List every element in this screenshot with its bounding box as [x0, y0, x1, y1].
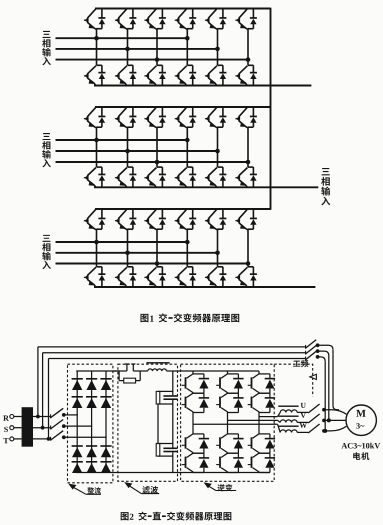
wire: group 2 top DC bus: [95, 106, 271, 108]
node: group 3 col 2 junction on phase line 2: [125, 251, 130, 256]
node: group 1 col 6 junction on phase line 3: [246, 57, 251, 62]
wire: group 2 col 4 vertical interconnect: [186, 127, 188, 167]
label: 三相输入 (right side): [321, 168, 330, 205]
thyristor pair cell, group 2 top row col 4: [175, 107, 197, 128]
wire: group 2 col 5 vertical interconnect: [217, 127, 219, 167]
wire: group 3 top DC bus: [95, 208, 271, 210]
thyristor pair cell, group 3 top row col 2: [115, 209, 136, 230]
node: group 2 col 5 junction on phase line 2: [215, 149, 220, 154]
IGBT Q23 with freewheel diode: [216, 434, 243, 453]
capacitor C1: [163, 395, 177, 397]
wire: resistor chain link: [157, 404, 159, 444]
thyristor pair cell, group 3 bottom row col 3: [144, 267, 166, 287]
dashed box: filter section: [118, 364, 178, 481]
thyristor pair cell, group 2 bottom row col 2: [115, 167, 136, 187]
wire: switch to rectifier taps: [64, 414, 78, 416]
IGBT Q14 with freewheel diode: [182, 453, 209, 472]
diode D14: [72, 461, 83, 463]
diode D22: [86, 396, 97, 398]
capacitor C2: [163, 448, 177, 450]
thyristor pair cell, group 2 bottom row col 1: [84, 167, 106, 187]
diode D12: [72, 396, 83, 398]
contactor bypass branch: [119, 370, 127, 372]
wire: output fan to U V W: [278, 412, 281, 416]
thyristor pair cell, group 1 top row col 5: [205, 9, 227, 30]
label: AC3~10kV 电机: [341, 443, 347, 448]
label: V: [301, 413, 306, 418]
node: group 3 col 1 junction on phase line 1: [94, 240, 99, 245]
wire: group 3 col 1 vertical interconnect: [96, 229, 98, 267]
thyristor pair cell, group 1 bottom row col 5: [205, 65, 227, 85]
IGBT Q32 with freewheel diode: [248, 393, 275, 412]
wire: filter entry: [113, 370, 119, 372]
wire: inverter leg 2 output tap: [228, 419, 278, 421]
wire: group 1 phase input line 3: [56, 59, 249, 61]
label: 逆变 (inverter): [204, 482, 212, 488]
thyristor pair cell, group 2 bottom row col 4: [175, 167, 197, 187]
IGBT Q34 with freewheel diode: [248, 453, 275, 472]
thyristor pair cell, group 1 bottom row col 1: [84, 65, 106, 85]
switch: W output knife switch: [297, 431, 308, 433]
node: group 1 col 3 junction on phase line 3: [155, 57, 160, 62]
inductor L (DC link choke) with core bar: [140, 370, 148, 372]
thyristor pair cell, group 3 bottom row col 5: [205, 267, 227, 287]
wire: inverter leg 1 mid segment: [192, 413, 194, 434]
wire: U V W to motor: [324, 410, 347, 415]
node: group 3 col 3 junction on phase line 3: [155, 261, 160, 266]
wire: group 2 col 3 vertical interconnect: [156, 127, 158, 167]
thyristor pair cell, group 2 bottom row col 6: [235, 167, 257, 187]
switch: main input knife switches: [51, 408, 64, 417]
thyristor pair cell, group 2 top row col 6: [235, 107, 257, 128]
thyristor pair cell, group 2 top row col 2: [115, 107, 136, 128]
thyristor pair cell, group 1 top row col 2: [115, 9, 136, 30]
wire: inverter leg 2 top drop: [227, 371, 229, 374]
IGBT Q21 with freewheel diode: [216, 374, 243, 393]
label: 整流 (rectifier): [68, 484, 76, 490]
resistor R (soft start) branch: [118, 371, 120, 381]
IGBT Q11 with freewheel diode: [182, 374, 209, 393]
thyristor pair cell, group 3 top row col 6: [235, 209, 257, 230]
thyristor pair cell, group 1 bottom row col 4: [175, 65, 197, 85]
wire: group 3 phase input line 2: [56, 252, 218, 254]
wire: group 1 top DC bus: [95, 8, 271, 10]
label: R S T input terminals: [3, 416, 9, 421]
switch: V output knife switch: [297, 421, 308, 423]
wire: rectifier leg 1: [76, 371, 78, 473]
wire: inverter leg 1 output tap: [193, 423, 278, 425]
thyristor pair cell, group 1 bottom row col 2: [115, 65, 136, 85]
IGBT Q24 with freewheel diode: [216, 453, 243, 472]
wire: inverter leg 1 top drop: [192, 371, 194, 374]
IGBT Q12 with freewheel diode: [182, 393, 209, 412]
wire: rectifier leg 2: [91, 371, 93, 473]
wire: inverter DC+ rail: [181, 370, 259, 372]
label: U: [301, 403, 306, 408]
diode D24: [86, 461, 97, 463]
diode D13: [72, 445, 83, 447]
wire: group 2 phase input line 3: [56, 161, 249, 163]
thyristor pair cell, group 3 bottom row col 6: [235, 267, 257, 287]
label: 滤波 (filter): [124, 482, 132, 488]
wire: group 1 col 3 vertical interconnect: [156, 29, 158, 66]
thyristor pair cell, group 2 top row col 1: [84, 107, 106, 128]
IGBT Q13 with freewheel diode: [182, 434, 209, 453]
thyristor pair cell, group 1 top row col 6: [235, 9, 257, 30]
wire: group 2 phase input line 1: [56, 139, 188, 141]
wire: group 3 phase input line 1: [56, 241, 188, 243]
thyristor pair cell, group 1 top row col 4: [175, 9, 197, 30]
IGBT Q33 with freewheel diode: [248, 434, 275, 453]
output reactor coil U: [280, 410, 297, 413]
wire: inverter leg 3 output tap: [259, 416, 278, 418]
label: 三相输入 (three-phase input) group 2: [42, 133, 51, 167]
node: group 1 col 4 junction on phase line 1: [185, 36, 190, 41]
dashed box: inverter section: [181, 364, 275, 481]
thyristor pair cell, group 1 top row col 1: [84, 9, 106, 30]
thyristor pair cell, group 2 bottom row col 5: [205, 167, 227, 187]
wire: DC- bottom rail (common): [76, 472, 270, 474]
thyristor pair cell, group 3 bottom row col 4: [175, 267, 197, 287]
label: 三相输入 (three-phase input) group 1: [42, 31, 51, 65]
output reactor coil V: [280, 420, 297, 423]
transformer/reactor (solid black bar): [22, 407, 33, 447]
wire: bar to disconnect switches: [33, 416, 51, 418]
wire: bypass top rails (to 工频 switch): [38, 346, 306, 348]
wire: bypass tap verticals to top rail: [37, 347, 39, 417]
node: group 1 col 5 junction on phase line 2: [215, 47, 220, 52]
wire: group 3 col 5 vertical interconnect: [217, 229, 219, 267]
dashed outline extension at top right with arrow: [274, 364, 313, 396]
thyristor pair cell, group 3 top row col 1: [84, 209, 106, 230]
thyristor pair cell, group 3 top row col 5: [205, 209, 227, 230]
wire: group 1 col 6 vertical interconnect: [247, 29, 249, 66]
wire: DC link capacitor chain: [172, 371, 174, 395]
wire: group 2 bottom bus + output line: [94, 186, 318, 188]
balancing resistor R1: [158, 390, 173, 392]
wire: group 3 col 2 vertical interconnect: [127, 229, 129, 267]
thyristor pair cell, group 3 bottom row col 2: [115, 267, 136, 287]
IGBT Q31 with freewheel diode: [248, 374, 275, 393]
wire: group 2 col 1 vertical interconnect: [96, 127, 98, 167]
caption: 图1 交-交变频器原理图: [140, 313, 239, 322]
balancing resistor R2: [158, 443, 173, 445]
wire: right vertical tie bus: [270, 8, 272, 210]
wire: rectifier DC+ top bus: [76, 370, 119, 372]
thyristor pair cell, group 1 bottom row col 6: [235, 65, 257, 85]
diode D34: [100, 461, 111, 463]
label: W: [300, 423, 307, 428]
wire: group 3 col 4 vertical interconnect: [186, 229, 188, 267]
IGBT Q22 with freewheel diode: [216, 393, 243, 412]
switch: U output knife switch: [297, 411, 308, 413]
label: 工频 (mains frequency): [293, 360, 308, 367]
wire: inverter leg 3 mid segment: [258, 413, 260, 434]
wire: group 1 col 4 vertical interconnect: [186, 29, 188, 66]
wire: inverter leg 2 mid segment: [227, 413, 229, 434]
wire: group 3 phase input line 3: [56, 263, 249, 265]
wire: group 2 col 6 vertical interconnect: [247, 127, 249, 167]
wire: bypass verticals down to U/V/W: [332, 350, 334, 406]
node: group 2 col 6 junction on phase line 3: [246, 160, 251, 165]
node: group 1 col 2 junction on phase line 2: [125, 47, 130, 52]
wire: group 1 col 5 vertical interconnect: [217, 29, 219, 66]
diode D21: [86, 378, 97, 380]
wire: group 1 bottom bus + output line: [94, 85, 311, 87]
diode D11: [72, 378, 83, 380]
dashed box: rectifier section: [68, 364, 113, 483]
diode D33: [100, 445, 111, 447]
thyristor pair cell, group 3 top row col 3: [144, 209, 166, 230]
wire: group 1 phase input line 1: [56, 37, 188, 39]
wire: group 2 col 2 vertical interconnect: [127, 127, 129, 167]
wire: group 3 col 3 vertical interconnect: [156, 229, 158, 267]
wire: group 1 col 1 vertical interconnect: [96, 29, 98, 66]
thyristor pair cell, group 2 top row col 5: [205, 107, 227, 128]
motor M 3~: [346, 405, 376, 435]
node: group 3 col 5 junction on phase line 2: [215, 251, 220, 256]
wire: R S T leads into transformer bar: [14, 416, 22, 418]
wire: group 1 phase input line 2: [56, 48, 218, 50]
wire: group 2 phase input line 2: [56, 150, 218, 152]
node: group 3 col 6 junction on phase line 3: [246, 261, 251, 266]
wire: rectifier leg 3: [105, 371, 107, 473]
thyristor pair cell, group 2 top row col 3: [144, 107, 166, 128]
node: group 3 col 4 junction on phase line 1: [185, 240, 190, 245]
wire: group 3 bottom bus + output line: [94, 286, 315, 288]
thyristor pair cell, group 3 bottom row col 1: [84, 267, 106, 287]
node: group 2 col 1 junction on phase line 1: [94, 138, 99, 143]
wire: group 1 col 2 vertical interconnect: [127, 29, 129, 66]
terminal circles: [10, 415, 14, 419]
thyristor pair cell, group 3 top row col 4: [175, 209, 197, 230]
node: group 1 col 1 junction on phase line 1: [94, 36, 99, 41]
node: group 2 col 2 junction on phase line 2: [125, 149, 130, 154]
output reactor coil W: [280, 430, 297, 433]
node: group 2 col 3 junction on phase line 3: [155, 160, 160, 165]
diode D31: [100, 378, 111, 380]
diode D23: [86, 445, 97, 447]
node: group 2 col 4 junction on phase line 1: [185, 138, 190, 143]
diode D32: [100, 396, 111, 398]
caption: 图2 交-直-交变频器原理图: [121, 512, 232, 521]
wire: inverter leg 3 top drop: [258, 371, 260, 374]
wire: group 3 col 6 vertical interconnect: [247, 229, 249, 267]
thyristor pair cell, group 1 top row col 3: [144, 9, 166, 30]
thyristor pair cell, group 1 bottom row col 3: [144, 65, 166, 85]
thyristor pair cell, group 2 bottom row col 3: [144, 167, 166, 187]
label: 三相输入 (three-phase input) group 3: [42, 235, 51, 269]
